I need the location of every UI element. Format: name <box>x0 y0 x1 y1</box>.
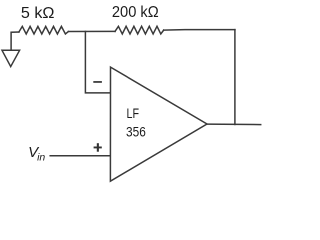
svg-text:in: in <box>37 152 45 164</box>
wire left corner down to ground <box>11 32 19 50</box>
svg-text:5 kΩ: 5 kΩ <box>21 5 55 22</box>
svg-text:200 kΩ: 200 kΩ <box>112 4 159 21</box>
wire top-right to feedback corner <box>164 29 235 31</box>
wire output <box>207 123 261 126</box>
op-amp U1 triangle <box>110 67 207 181</box>
plus sign non-inverting input <box>94 147 102 149</box>
resistor R1 5 kOhm zigzag <box>19 26 69 34</box>
ground <box>2 50 20 66</box>
svg-text:LF: LF <box>127 105 140 121</box>
minus sign inverting input <box>93 81 102 83</box>
wire junction drop to inverting input <box>85 32 110 93</box>
wire non-inverting input <box>50 155 110 157</box>
svg-text:356: 356 <box>126 124 146 140</box>
wire between resistors <box>68 30 115 32</box>
resistor R2 200 kOhm zigzag <box>115 26 164 34</box>
wire feedback vertical drop <box>234 30 236 125</box>
